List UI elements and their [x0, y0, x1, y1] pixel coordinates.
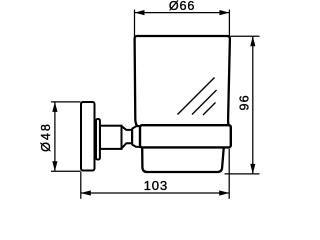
dim 103 arrow left: [81, 190, 91, 195]
dim 96 line: [252, 36, 254, 174]
glass shine line 2: [192, 90, 217, 115]
dim Ø48 arrow bottom: [52, 161, 57, 171]
dim Ø66 extension line left: [134, 10, 136, 37]
arm cone and neck: [122, 126, 133, 148]
dim 96 extension line top: [230, 35, 259, 37]
dim Ø48 arrow top: [52, 102, 57, 112]
glass shine line 1: [178, 78, 215, 115]
glass tumbler upper body: [135, 36, 231, 127]
dim Ø48 line: [54, 102, 56, 171]
svg-text:96: 96: [238, 94, 252, 110]
dim 96 arrow top: [250, 36, 255, 46]
dim Ø66 arrow left: [135, 10, 145, 15]
dim 103 extension line right: [228, 149, 230, 199]
arm cylinder: [100, 126, 122, 149]
wall plate: [81, 102, 95, 171]
dim 103 arrow right: [219, 190, 229, 195]
holder ring band: [140, 125, 231, 147]
dim 96 arrow bottom: [250, 164, 255, 174]
holder collar: [132, 126, 140, 147]
dim Ø66 arrow right: [219, 10, 229, 15]
svg-text:Ø48: Ø48: [39, 122, 53, 152]
dim 103 extension line left: [80, 172, 82, 199]
dim Ø48 extension line top: [51, 101, 81, 103]
dim 103 line: [81, 192, 229, 194]
glass tumbler lower body: [142, 147, 224, 172]
wall plate front step: [96, 119, 100, 160]
svg-text:Ø66: Ø66: [169, 0, 196, 13]
dim Ø48 extension line bottom: [51, 170, 81, 172]
dim Ø66 line: [135, 12, 230, 14]
glass shine line 3: [203, 103, 216, 116]
dim 96 extension line bottom: [225, 173, 260, 175]
dim Ø66 extension line right: [228, 10, 230, 37]
svg-text:103: 103: [144, 178, 168, 193]
